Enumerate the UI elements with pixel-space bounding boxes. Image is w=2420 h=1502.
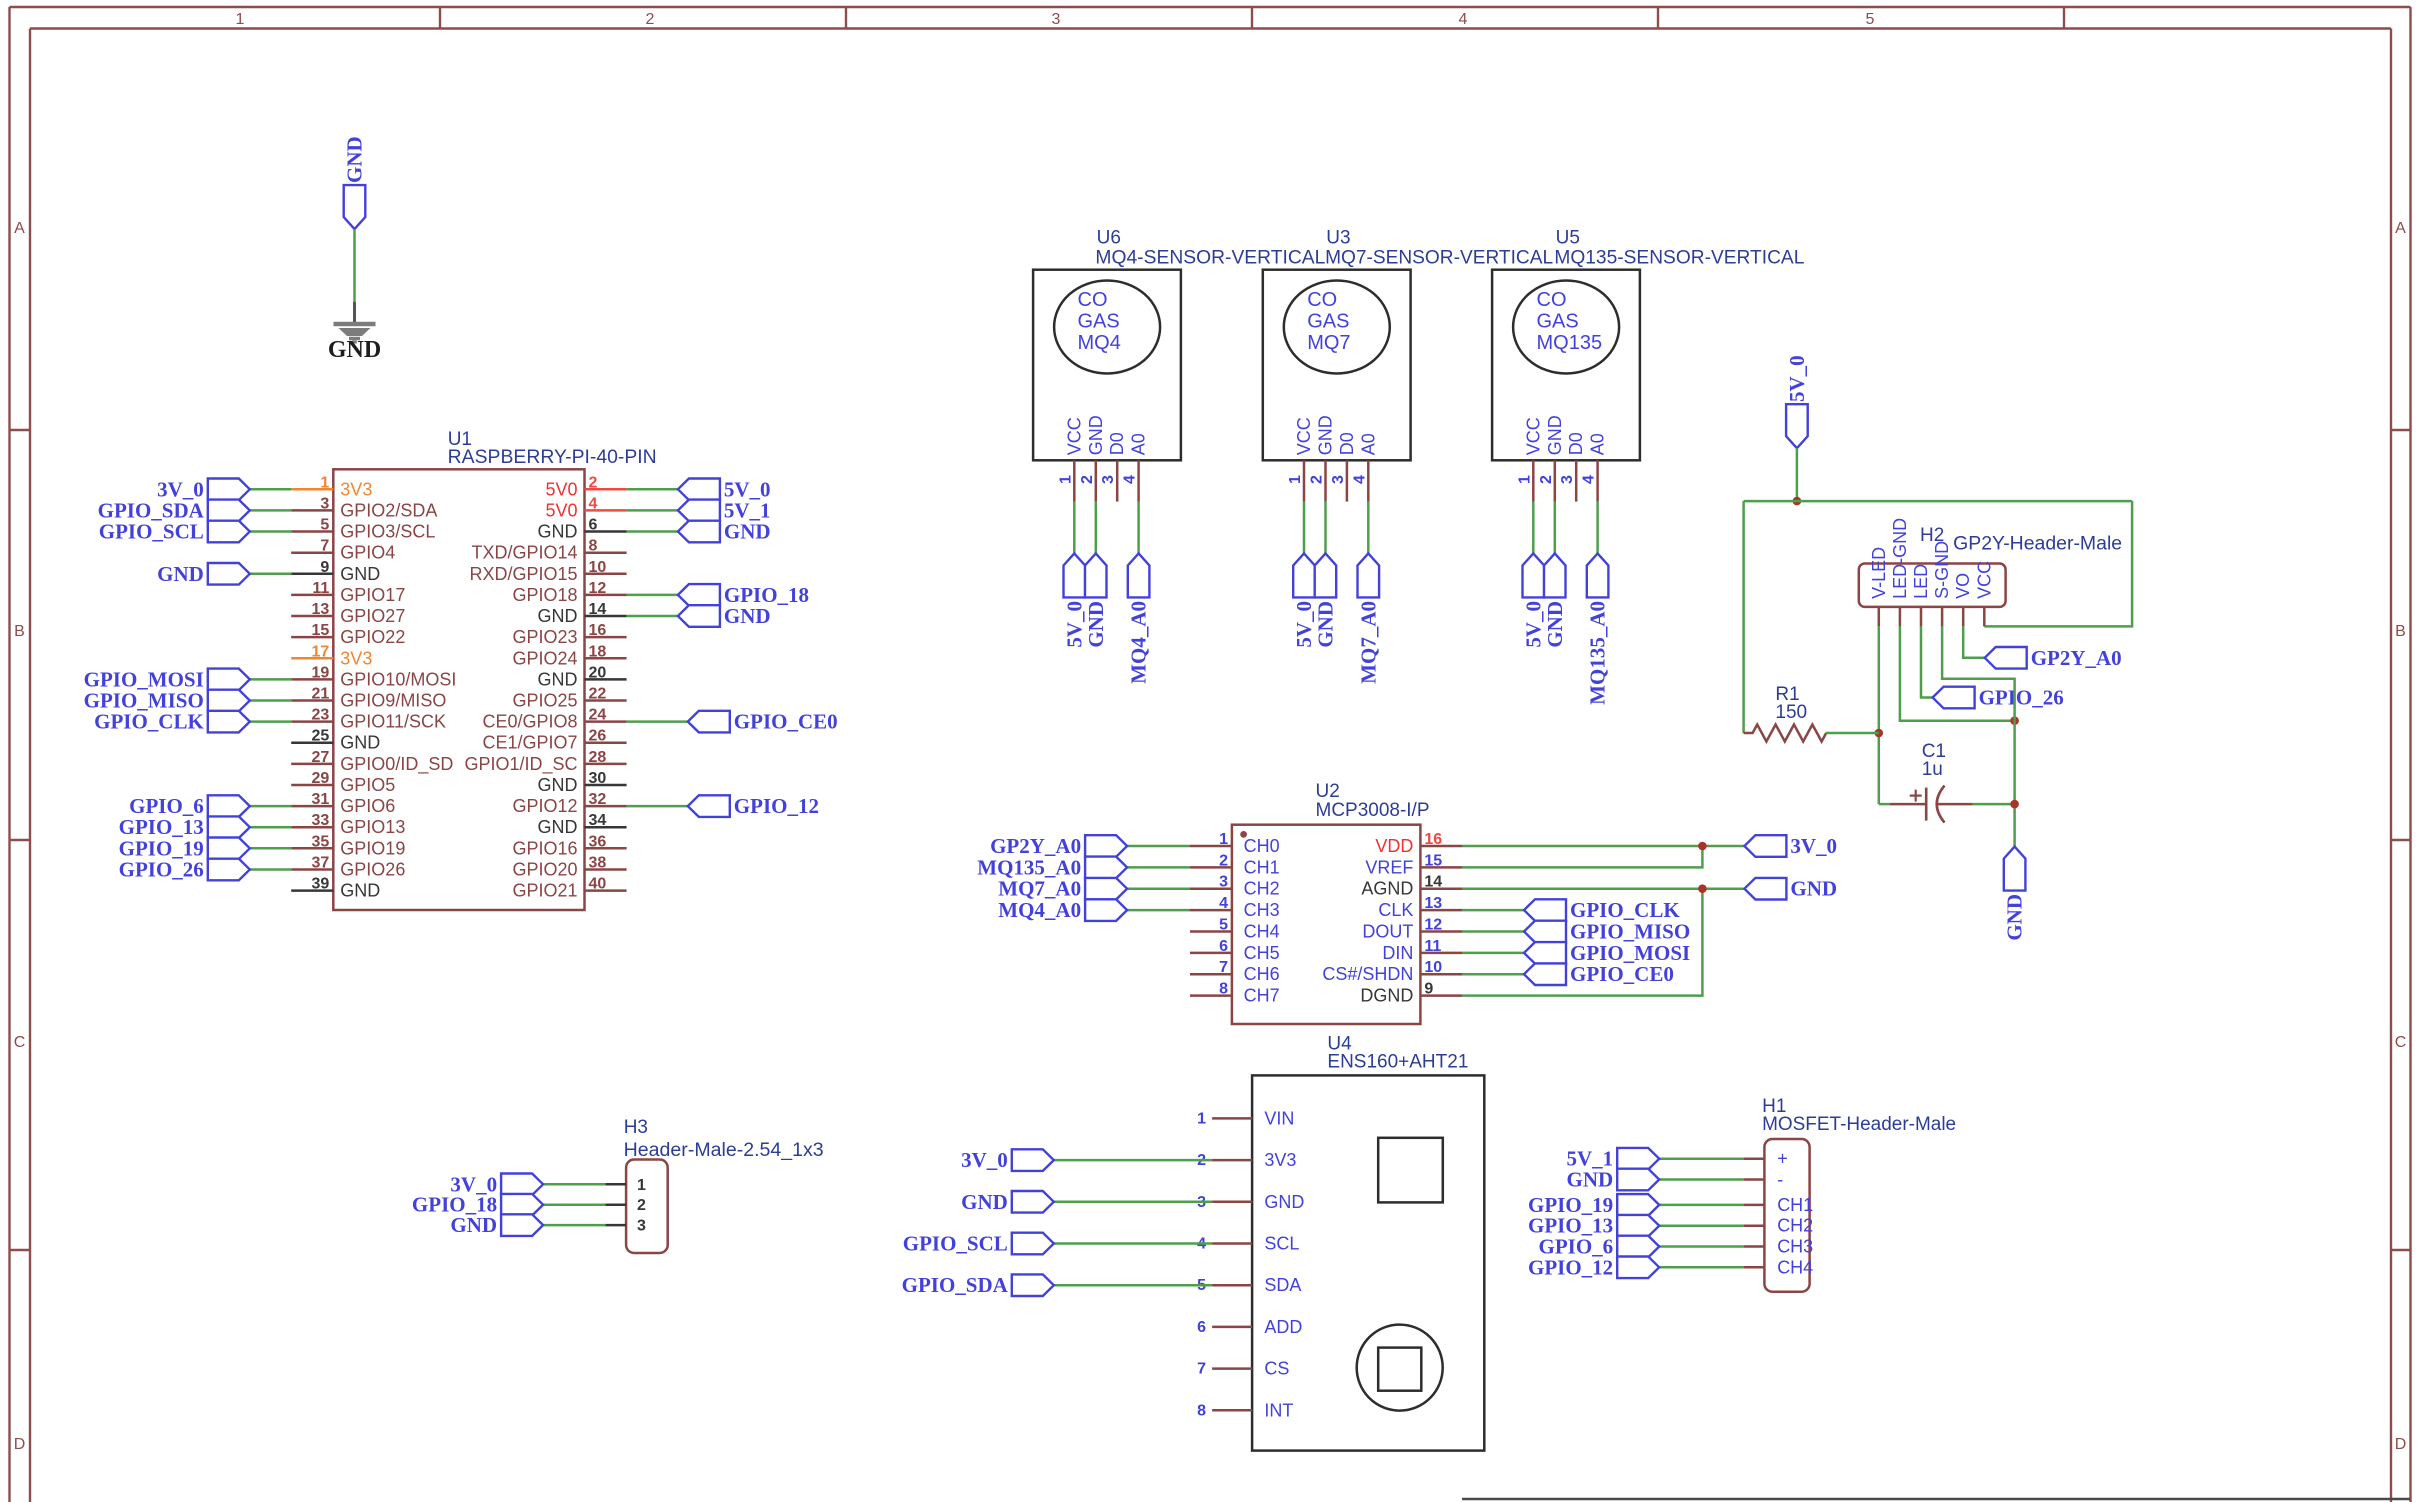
svg-text:MQ7_A0: MQ7_A0: [998, 877, 1081, 901]
wire GPIO_18 to H3 pin 2: [543, 1203, 605, 1206]
H2 pin 3 (LED): [1911, 564, 1931, 627]
svg-text:A0: A0: [1129, 433, 1149, 455]
net flag GND: [1567, 1168, 1660, 1192]
svg-text:GPIO21: GPIO21: [512, 881, 577, 901]
svg-text:10: 10: [589, 559, 607, 576]
svg-text:CO: CO: [1307, 289, 1337, 311]
U1 pin 37 (GPIO26): [291, 855, 405, 880]
svg-text:MQ135-SENSOR-VERTICAL: MQ135-SENSOR-VERTICAL: [1554, 248, 1804, 269]
svg-text:GPIO_12: GPIO_12: [1528, 1255, 1613, 1279]
wire GPIO_13 to H1 pin 4: [1659, 1224, 1743, 1227]
U2 pin 8 (CH7): [1190, 981, 1280, 1006]
svg-text:3: 3: [637, 1218, 646, 1235]
connector H1 MOSFET-Header-Male: [1762, 1096, 1956, 1292]
U1 pin 32 (GPIO12): [512, 791, 626, 816]
svg-text:GPIO24: GPIO24: [512, 648, 577, 668]
wire U2 VDD to 3V_0: [1462, 845, 1744, 848]
svg-text:CO: CO: [1078, 289, 1108, 311]
U1 pin 35 (GPIO19): [291, 833, 405, 858]
U1 pin 29 (GPIO5): [291, 770, 395, 795]
wire H2 VO to GP2Y_A0: [1963, 626, 1985, 657]
svg-text:5V_0: 5V_0: [1521, 601, 1545, 648]
wire GND to H3 pin 3: [543, 1224, 605, 1227]
svg-text:6: 6: [1219, 938, 1228, 955]
U1 pin 28 (GPIO1/ID_SC): [464, 749, 626, 775]
svg-text:7: 7: [1219, 959, 1228, 976]
net flag 5V_0: [678, 477, 771, 501]
svg-text:GPIO18: GPIO18: [512, 585, 577, 605]
U1 pin 2 (5V0): [545, 474, 626, 499]
wire GPIO_6 to H1 pin 5: [1659, 1245, 1743, 1248]
U1 pin 4 (5V0): [545, 495, 626, 520]
net flag GND: [157, 562, 250, 586]
svg-text:MOSFET-Header-Male: MOSFET-Header-Male: [1762, 1114, 1956, 1135]
svg-text:GND: GND: [538, 775, 578, 795]
wire VREF branch: [1462, 846, 1702, 867]
svg-text:3: 3: [1330, 475, 1347, 484]
wire H2 S-GND to GND rail: [1942, 626, 2015, 846]
svg-text:C: C: [14, 1034, 26, 1051]
svg-text:3V3: 3V3: [340, 479, 372, 499]
U2 pin 12 (DOUT): [1362, 917, 1462, 942]
net flag GPIO_19: [119, 836, 250, 860]
net flag MQ135_A0: [1586, 553, 1610, 704]
U1 pin 5 (GPIO3/SCL): [291, 517, 435, 542]
U4 pin 8 (INT): [1197, 1400, 1293, 1420]
U4 pin 5 (SDA): [1197, 1275, 1301, 1295]
svg-text:GPIO_12: GPIO_12: [734, 794, 819, 818]
svg-text:3V3: 3V3: [1264, 1150, 1296, 1170]
svg-text:GND: GND: [538, 669, 578, 689]
svg-text:GPIO3/SCL: GPIO3/SCL: [340, 522, 435, 542]
wire GPIO_CLK to U1 pin 23: [250, 720, 291, 723]
wire U1 pin 24 to GPIO_CE0: [627, 720, 688, 723]
net flag GPIO_CE0: [1524, 962, 1674, 986]
svg-text:DIN: DIN: [1382, 943, 1413, 963]
svg-text:1: 1: [1197, 1110, 1206, 1127]
wire GPIO_19 to U1 pin 35: [250, 847, 291, 850]
svg-text:25: 25: [312, 728, 330, 745]
svg-text:GPIO0/ID_SD: GPIO0/ID_SD: [340, 754, 453, 775]
U2 pin 2 (CH1): [1190, 852, 1280, 877]
U2 pin 10 (CS#/SHDN): [1322, 959, 1462, 984]
net flag 5V_0: [1292, 553, 1316, 647]
svg-text:GPIO11/SCK: GPIO11/SCK: [340, 712, 446, 732]
svg-text:GND: GND: [450, 1213, 497, 1237]
svg-text:26: 26: [589, 728, 607, 745]
svg-text:MQ4_A0: MQ4_A0: [1127, 601, 1151, 684]
svg-text:VCC: VCC: [1294, 417, 1314, 455]
svg-text:INT: INT: [1264, 1400, 1293, 1420]
svg-text:5V_0: 5V_0: [1062, 601, 1086, 648]
wire U5 pin 4 to MQ135_A0: [1596, 502, 1599, 554]
net flag GPIO_6: [129, 794, 250, 818]
net flag 5V_0: [1062, 553, 1086, 647]
svg-text:GPIO5: GPIO5: [340, 775, 395, 795]
svg-text:GPIO19: GPIO19: [340, 838, 405, 858]
svg-text:5V0: 5V0: [545, 479, 577, 499]
svg-text:CH3: CH3: [1777, 1237, 1813, 1257]
svg-text:GND: GND: [538, 817, 578, 837]
svg-text:A: A: [14, 220, 25, 237]
svg-text:33: 33: [312, 812, 330, 829]
H2 pin 2 (LED-GND): [1890, 518, 1910, 627]
U1 pin 30 (GND): [538, 770, 627, 795]
svg-text:RASPBERRY-PI-40-PIN: RASPBERRY-PI-40-PIN: [448, 447, 657, 468]
svg-text:4: 4: [1459, 11, 1468, 28]
svg-text:1: 1: [1287, 475, 1304, 484]
H2 pin 4 (S-GND): [1932, 541, 1952, 627]
svg-text:-: -: [1777, 1170, 1783, 1190]
wire GP2Y_A0 to U2 pin 1: [1127, 845, 1190, 848]
net flag GND: [678, 520, 771, 544]
svg-text:MQ4_A0: MQ4_A0: [998, 898, 1081, 922]
net flag GPIO_CE0: [688, 710, 838, 734]
net flag GND (top left): [343, 136, 367, 229]
net flag GP2Y_A0: [990, 834, 1127, 858]
svg-text:SCL: SCL: [1264, 1234, 1299, 1254]
svg-text:GPIO_SCL: GPIO_SCL: [903, 1232, 1008, 1256]
svg-text:21: 21: [312, 686, 330, 703]
svg-text:2: 2: [637, 1197, 646, 1214]
svg-text:38: 38: [589, 855, 607, 872]
net flag GPIO_CLK: [1524, 898, 1680, 922]
net flag GPIO_26: [1933, 686, 2064, 710]
resistor R1 150: [1744, 684, 1827, 742]
svg-text:GPIO1/ID_SC: GPIO1/ID_SC: [464, 754, 577, 775]
wire U2 to GPIO_MOSI: [1462, 952, 1524, 955]
svg-text:3: 3: [1052, 11, 1061, 28]
U4 pin 3 (GND): [1197, 1192, 1304, 1212]
svg-text:5: 5: [1866, 11, 1875, 28]
svg-text:VREF: VREF: [1365, 857, 1413, 877]
junction LED-GND/GND rail: [2010, 716, 2019, 725]
wire U5 pin 1 to 5V_0: [1532, 502, 1535, 554]
svg-text:GND: GND: [724, 520, 771, 544]
net flag GPIO_19: [1528, 1193, 1659, 1217]
svg-text:GND: GND: [538, 606, 578, 626]
svg-text:22: 22: [589, 686, 607, 703]
svg-text:GPIO16: GPIO16: [512, 838, 577, 858]
sensor U6 MQ4-SENSOR-VERTICAL: [1033, 228, 1325, 461]
wire U6 pin 2 to GND: [1095, 502, 1098, 554]
net flag 3V_0: [450, 1172, 543, 1196]
wire 3V_0 to H3 pin 1: [543, 1183, 605, 1186]
svg-text:8: 8: [1219, 981, 1228, 998]
net flag GPIO_6: [1539, 1235, 1660, 1259]
svg-text:3V_0: 3V_0: [961, 1148, 1008, 1172]
svg-text:GND: GND: [2003, 894, 2027, 941]
U1 pin 24 (CE0/GPIO8): [482, 707, 626, 732]
net flag GPIO_SDA: [98, 498, 250, 522]
svg-text:4: 4: [1219, 895, 1228, 912]
net flag 5V_0 (above H2): [1785, 355, 1809, 448]
U1 pin 7 (GPIO4): [291, 538, 395, 563]
svg-text:GND: GND: [1316, 415, 1336, 455]
svg-text:12: 12: [589, 580, 607, 597]
svg-text:3V_0: 3V_0: [1790, 834, 1837, 858]
svg-text:GPIO12: GPIO12: [512, 796, 577, 816]
svg-text:2: 2: [1309, 475, 1326, 484]
net flag GPIO_SDA: [902, 1273, 1054, 1297]
svg-text:3: 3: [1559, 475, 1576, 484]
net flag GND: [1314, 553, 1338, 647]
U1 pin 17 (3V3): [291, 643, 372, 668]
U2 pin 5 (CH4): [1190, 917, 1280, 942]
svg-text:D0: D0: [1337, 432, 1357, 455]
net flag MQ7_A0: [998, 877, 1127, 901]
U5 pin 1 (VCC): [1516, 417, 1543, 501]
wire GPIO_13 to U1 pin 33: [250, 826, 291, 829]
U2 pin 7 (CH6): [1190, 959, 1280, 984]
net flag GPIO_18: [678, 583, 809, 607]
svg-text:CH4: CH4: [1777, 1257, 1813, 1277]
svg-text:16: 16: [1424, 831, 1442, 848]
svg-text:CH2: CH2: [1244, 879, 1280, 899]
svg-text:VIN: VIN: [1264, 1108, 1294, 1128]
svg-text:CLK: CLK: [1378, 900, 1413, 920]
svg-text:4: 4: [1581, 475, 1598, 484]
net flag GND: [450, 1213, 543, 1237]
svg-text:11: 11: [312, 580, 329, 597]
svg-text:DGND: DGND: [1360, 986, 1413, 1006]
junction R1 right: [1875, 729, 1884, 738]
U1 pin 9 (GND): [291, 559, 380, 584]
net flag GPIO_MISO: [84, 689, 250, 713]
wire C1 right to GND rail: [1973, 803, 2015, 806]
wire U3 pin 2 to GND: [1324, 502, 1327, 554]
U5 pin 2 (GND): [1538, 415, 1565, 501]
H1 pin 4 (CH2): [1744, 1216, 1814, 1236]
svg-text:SDA: SDA: [1264, 1275, 1301, 1295]
U1 pin 6 (GND): [538, 517, 627, 542]
svg-text:1: 1: [320, 474, 329, 491]
wire GPIO_6 to U1 pin 31: [250, 805, 291, 808]
wire U2 to GPIO_CE0: [1462, 973, 1524, 976]
svg-text:D0: D0: [1566, 432, 1586, 455]
U4 pin 1 (VIN): [1197, 1108, 1294, 1128]
wire U2 to GPIO_MISO: [1462, 930, 1524, 933]
H1 pin 5 (CH3): [1744, 1237, 1814, 1257]
U1 pin 21 (GPIO9/MISO): [291, 686, 446, 711]
svg-text:RXD/GPIO15: RXD/GPIO15: [469, 564, 577, 584]
svg-text:GPIO17: GPIO17: [340, 585, 405, 605]
wire 5V rail to H2 VCC (right drop): [1984, 501, 2132, 626]
svg-text:GPIO23: GPIO23: [512, 627, 577, 647]
svg-text:GPIO13: GPIO13: [340, 817, 405, 837]
U2 pin 15 (VREF): [1365, 852, 1462, 877]
svg-text:GPIO_CLK: GPIO_CLK: [1570, 898, 1680, 922]
U1 pin 14 (GND): [538, 601, 627, 626]
wire H2 LED-GND to GND rail: [1900, 626, 2015, 720]
svg-text:GP2Y-Header-Male: GP2Y-Header-Male: [1953, 534, 2122, 555]
H1 pin 6 (CH4): [1744, 1257, 1814, 1277]
svg-text:13: 13: [1424, 895, 1442, 912]
net flag GPIO_MOSI: [1524, 941, 1690, 965]
svg-text:6: 6: [589, 517, 598, 534]
U5 pin 3 (D0): [1559, 432, 1586, 501]
module U4 ENS160+AHT21: [1252, 1034, 1484, 1451]
svg-text:11: 11: [1424, 938, 1441, 955]
svg-text:GND: GND: [1543, 601, 1567, 648]
svg-text:D: D: [14, 1436, 26, 1453]
svg-text:U6: U6: [1097, 228, 1121, 249]
U1 pin 22 (GPIO25): [512, 686, 626, 711]
wire U3 pin 1 to 5V_0: [1303, 502, 1306, 554]
svg-text:CH4: CH4: [1244, 922, 1280, 942]
U1 pin 33 (GPIO13): [291, 812, 405, 837]
svg-text:CH6: CH6: [1244, 964, 1280, 984]
net flag GND: [1543, 553, 1567, 647]
svg-text:D0: D0: [1107, 432, 1127, 455]
net flag GND: [961, 1190, 1054, 1214]
svg-text:CO: CO: [1537, 289, 1567, 311]
svg-text:GND: GND: [1545, 415, 1565, 455]
svg-text:U5: U5: [1556, 228, 1580, 249]
svg-text:GPIO10/MOSI: GPIO10/MOSI: [340, 669, 456, 689]
svg-text:TXD/GPIO14: TXD/GPIO14: [471, 543, 577, 563]
svg-text:GPIO_CLK: GPIO_CLK: [94, 710, 204, 734]
U1 pin 10 (RXD/GPIO15): [469, 559, 626, 584]
wire R1 to junction: [1826, 732, 1879, 735]
junction AGND/DGND: [1698, 884, 1707, 893]
svg-text:CH7: CH7: [1244, 986, 1280, 1006]
net flag MQ135_A0: [977, 855, 1127, 879]
svg-text:GP2Y_A0: GP2Y_A0: [2031, 646, 2122, 670]
svg-text:MCP3008-I/P: MCP3008-I/P: [1316, 800, 1430, 821]
svg-text:9: 9: [320, 559, 329, 576]
H2 pin 1 (V-LED): [1869, 547, 1889, 627]
wire GPIO_19 to H1 pin 3: [1659, 1204, 1743, 1207]
H3 pin 1: [605, 1177, 646, 1194]
svg-text:MQ135_A0: MQ135_A0: [1586, 601, 1610, 705]
svg-text:29: 29: [312, 770, 330, 787]
svg-text:MQ4-SENSOR-VERTICAL: MQ4-SENSOR-VERTICAL: [1095, 248, 1325, 269]
svg-text:GND: GND: [343, 136, 367, 183]
U2 pin 14 (AGND): [1361, 874, 1462, 899]
net flag GPIO_12: [1528, 1255, 1659, 1279]
svg-text:GPIO9/MISO: GPIO9/MISO: [340, 691, 446, 711]
wire U1 pin 2 to 5V_0: [627, 488, 678, 491]
svg-text:GPIO_SDA: GPIO_SDA: [902, 1273, 1009, 1297]
IC U2 MCP3008-I/P: [1232, 781, 1430, 1024]
svg-text:U3: U3: [1326, 228, 1350, 249]
wire GPIO_MISO to U1 pin 21: [250, 699, 291, 702]
svg-text:3V3: 3V3: [340, 648, 372, 668]
svg-text:CH3: CH3: [1244, 900, 1280, 920]
svg-text:GPIO27: GPIO27: [340, 606, 405, 626]
svg-text:5V0: 5V0: [545, 500, 577, 520]
U1 pin 20 (GND): [538, 664, 627, 689]
svg-text:DOUT: DOUT: [1362, 922, 1413, 942]
wire U2 AGND to GND: [1462, 887, 1744, 890]
svg-text:D: D: [2395, 1436, 2407, 1453]
svg-text:CH1: CH1: [1244, 857, 1280, 877]
net flag GPIO_18: [412, 1193, 543, 1217]
U6 pin 4 (A0): [1122, 433, 1149, 501]
svg-text:13: 13: [312, 601, 330, 618]
U1 pin 27 (GPIO0/ID_SD): [291, 749, 453, 775]
svg-text:GAS: GAS: [1078, 311, 1120, 333]
connector H2 GP2Y-Header-Male: [1859, 525, 2122, 607]
svg-text:10: 10: [1424, 959, 1442, 976]
svg-text:GND: GND: [340, 881, 380, 901]
svg-text:GPIO6: GPIO6: [340, 796, 395, 816]
capacitor C1 1u: [1890, 741, 1973, 823]
svg-text:36: 36: [589, 833, 607, 850]
svg-text:31: 31: [312, 791, 330, 808]
svg-text:2: 2: [646, 11, 655, 28]
wire GND flag to ground: [353, 229, 356, 302]
svg-text:MQ7: MQ7: [1307, 332, 1350, 354]
wire U2 to GPIO_CLK: [1462, 909, 1524, 912]
U4 pin 6 (ADD): [1197, 1317, 1302, 1337]
svg-text:40: 40: [589, 876, 607, 893]
svg-text:7: 7: [1197, 1361, 1206, 1378]
U1 pin 12 (GPIO18): [512, 580, 626, 605]
net flag GP2Y_A0: [1985, 646, 2122, 670]
U1 pin 1 (3V3): [291, 474, 372, 499]
wire 5V_0 down to node: [1796, 448, 1799, 501]
U2 pin 4 (CH3): [1190, 895, 1280, 920]
svg-text:3: 3: [1100, 475, 1117, 484]
wire MQ135_A0 to U2 pin 2: [1127, 866, 1190, 869]
wire U1 pin 4 to 5V_1: [627, 509, 678, 512]
svg-text:4: 4: [589, 495, 598, 512]
wire U1 pin 32 to GPIO_12: [627, 805, 688, 808]
U1 pin 15 (GPIO22): [291, 622, 405, 647]
svg-text:GND: GND: [340, 733, 380, 753]
svg-text:GPIO_SCL: GPIO_SCL: [99, 520, 204, 544]
svg-text:3: 3: [1219, 874, 1228, 891]
U2 pin 1 (CH0): [1190, 831, 1280, 856]
wire MQ4_A0 to U2 pin 4: [1127, 909, 1190, 912]
svg-text:GND: GND: [1264, 1192, 1304, 1212]
wire GPIO_SCL to U4 pin 4: [1054, 1242, 1212, 1245]
wire U3 pin 4 to MQ7_A0: [1367, 502, 1370, 554]
net flag 5V_0: [1521, 553, 1545, 647]
svg-text:14: 14: [589, 601, 607, 618]
svg-text:3: 3: [320, 495, 329, 512]
svg-text:GPIO22: GPIO22: [340, 627, 405, 647]
svg-text:MQ7_A0: MQ7_A0: [1356, 601, 1380, 684]
svg-text:9: 9: [1424, 981, 1433, 998]
U3 pin 3 (D0): [1330, 432, 1357, 501]
svg-text:23: 23: [312, 707, 330, 724]
svg-text:VO: VO: [1953, 573, 1973, 599]
IC U1 RASPBERRY-PI-40-PIN: [333, 429, 656, 910]
U1 pin 13 (GPIO27): [291, 601, 405, 626]
ground: [328, 302, 381, 363]
U1 pin 38 (GPIO20): [512, 855, 626, 880]
net flag GND: [678, 604, 771, 628]
H1 pin 3 (CH1): [1744, 1195, 1814, 1215]
svg-text:1: 1: [637, 1177, 646, 1194]
H2 pin 6 (VCC): [1974, 561, 1994, 627]
net flag 5V_1: [678, 498, 771, 522]
svg-text:4: 4: [1122, 475, 1139, 484]
svg-text:28: 28: [589, 749, 607, 766]
svg-text:ENS160+AHT21: ENS160+AHT21: [1327, 1052, 1468, 1073]
net flag GPIO_SCL: [99, 520, 250, 544]
wire GPIO_MOSI to U1 pin 19: [250, 678, 291, 681]
svg-text:+: +: [1777, 1149, 1788, 1169]
svg-text:GPIO_26: GPIO_26: [1979, 686, 2064, 710]
svg-text:A0: A0: [1588, 433, 1608, 455]
svg-text:8: 8: [589, 538, 598, 555]
svg-text:1: 1: [236, 11, 245, 28]
H2 pin 5 (VO): [1953, 573, 1973, 627]
